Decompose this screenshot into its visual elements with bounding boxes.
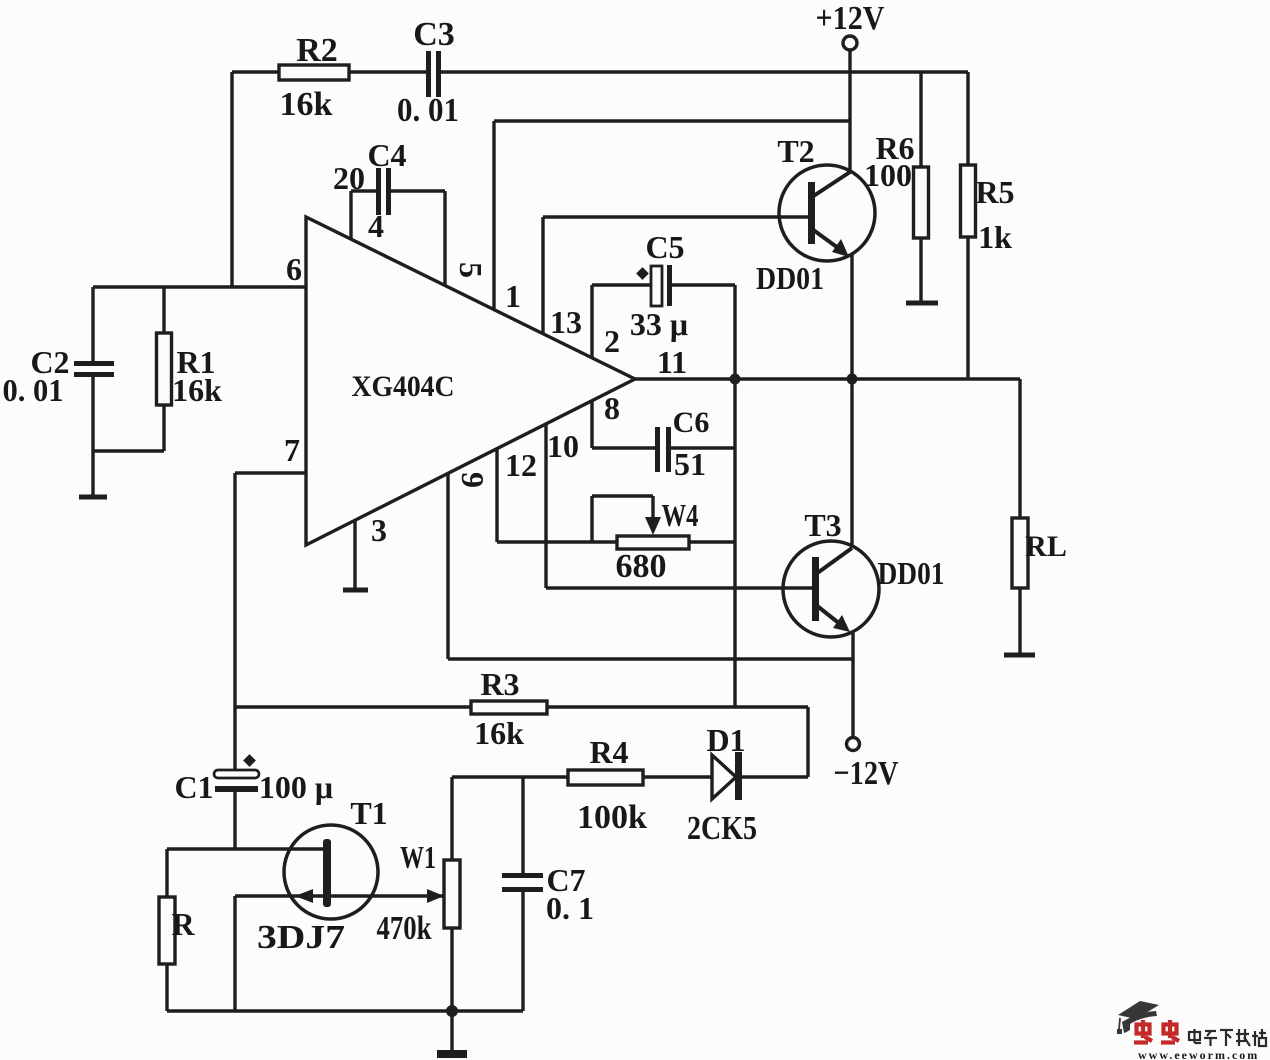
svg-text:5: 5 [453,262,489,278]
wire pin 10 to T3 base horizontal [546,586,813,589]
wire R1 bottom vertical [162,405,165,451]
wire T1 drain horizontal [167,847,326,850]
logo chong character 1 [1141,1020,1145,1038]
wire C4 left horizontal [351,189,377,192]
ground below C2 [79,495,107,500]
capacitor C6 right plate [666,427,671,472]
wire W4 right horizontal [689,540,735,543]
ground below RL [1004,653,1035,658]
wire R1 bottom to C2 branch horizontal [93,449,164,452]
svg-text:16k: 16k [474,715,524,751]
svg-text:C5: C5 [645,229,684,265]
capacitor C2 top plate [74,361,114,366]
wire pin 7 horizontal [235,471,306,474]
resistor R5 [961,165,976,237]
wire pin 13 vertical [541,217,544,334]
svg-text:33 μ: 33 μ [630,306,688,342]
svg-text:0. 01: 0. 01 [3,372,64,408]
wire pin 2 vertical [590,285,593,358]
svg-text:www.eeworm.com: www.eeworm.com [1138,1048,1259,1060]
wire feedback corner vertical at x808 [806,707,809,777]
svg-text:4: 4 [368,208,384,244]
wire pin 6 input horizontal [93,285,306,288]
junction node at T2 emitter and output [847,374,858,385]
wire pin 1 horizontal to +12V line [494,119,850,122]
svg-text:+12V: +12V [816,0,885,37]
svg-text:C4: C4 [367,137,406,173]
capacitor C7 bottom plate [502,887,543,892]
svg-text:7: 7 [284,432,300,468]
wire pin 1 vertical [492,121,495,310]
capacitor C5 left plate (electrolytic hollow) [651,266,662,306]
svg-text:T1: T1 [350,795,387,831]
svg-text:11: 11 [657,344,687,380]
transistor T2 base bar [808,182,815,244]
wire pin 10 vertical [544,424,547,588]
svg-text:3DJ7: 3DJ7 [257,919,345,956]
logo text zhan [1254,1031,1256,1046]
wire top rail middle segment R2 to C3 [349,70,427,73]
wire pin 3 vertical [353,521,356,590]
svg-text:T2: T2 [777,133,814,169]
wire pin 5 vertical [443,191,446,286]
diode D1 triangle [712,755,736,799]
transistor T3 collector stroke [816,548,852,574]
wire R3 left segment [235,705,471,708]
svg-text:W1: W1 [400,839,436,875]
transistor T1 channel bar [323,839,331,907]
capacitor C2 bottom plate [74,372,114,377]
wire top rail right segment C3 to R5 [441,70,968,73]
svg-text:DD01: DD01 [756,260,824,296]
svg-text:8: 8 [604,390,620,426]
wire pin 13 to T2 base horizontal [543,215,809,218]
wire C1 bottom to T1 drain [233,792,236,849]
svg-text:0. 01: 0. 01 [397,92,459,129]
wire C5 left horizontal [592,283,652,286]
logo tassel cord [1119,1018,1120,1030]
capacitor C4 left plate [376,168,381,215]
svg-text:470k: 470k [377,910,432,947]
logo graduation cap board [1118,1001,1159,1019]
resistor R4 [568,770,643,785]
wire pin 9 horizontal to -12V node [448,657,853,660]
wire pin 8 vertical [590,400,593,448]
svg-text:W4: W4 [662,497,699,533]
wire RL top vertical [1018,379,1021,518]
wire T1 gate-source horizontal [235,894,444,897]
wire left vertical from top rail to pin6 [230,72,233,287]
svg-text:R4: R4 [589,734,628,770]
svg-text:R3: R3 [480,666,519,702]
wire R3 right segment [547,705,808,708]
svg-text:100 μ: 100 μ [259,769,333,805]
svg-text:R: R [171,906,195,942]
capacitor C3 right plate [436,51,441,97]
diode D1 cathode bar [735,752,742,800]
svg-text:16k: 16k [280,86,333,123]
resistor R2 [279,65,349,80]
wire R6 top vertical [919,72,922,167]
svg-text:C6: C6 [673,406,710,439]
logo chong character 2 [1168,1020,1172,1038]
capacitor C7 top plate [502,873,543,878]
transistor T2 emitter stroke [812,229,845,253]
wire right bus vertical C5 to R3 [733,285,736,707]
wire C2 top vertical [91,287,94,362]
wire pin 7 vertical down to C1 [233,473,236,770]
svg-text:100: 100 [864,157,912,193]
svg-text:R5: R5 [975,174,1014,210]
wire W1 bottom vertical [450,928,453,1011]
capacitor C6 left plate [655,427,660,472]
wire RL bottom vertical to ground [1018,588,1021,655]
wire +12V terminal vertical [848,50,851,172]
ground below R6 [906,301,938,306]
wire R4 to D1 anode horizontal [643,775,713,778]
svg-text:13: 13 [550,304,582,340]
svg-text:XG404C: XG404C [352,370,455,403]
svg-text:1: 1 [505,278,521,314]
potentiometer W4 wiper arrowhead [645,517,661,535]
wire top rail left segment [232,70,280,73]
svg-text:D1: D1 [706,722,745,758]
svg-text:12: 12 [505,447,537,483]
op-amp U1 XG404C triangle [306,217,635,545]
wire R1 top vertical [162,287,165,333]
wire bottom rail [167,1009,523,1012]
svg-text:16k: 16k [172,372,222,408]
svg-text:C3: C3 [413,16,455,53]
wire pin 12 vertical [495,449,498,542]
wire ground stub below W1 [450,1011,453,1053]
polarity mark of C1 [243,754,256,767]
svg-text:−12V: −12V [834,755,899,792]
transistor T2 emitter arrowhead [832,239,849,257]
svg-text:2CK5: 2CK5 [687,810,757,847]
wire C2 bottom vertical to ground [91,377,94,497]
logo text zai [1236,1033,1249,1035]
junction node at C5 bus and output [730,374,741,385]
wire C6 left horizontal [592,446,656,449]
transistor T3 emitter arrowhead [833,615,850,632]
svg-text:DD01: DD01 [878,555,945,591]
transistor T2 collector stroke [812,172,850,197]
wire pin 12 to W4 horizontal [497,540,617,543]
capacitor C5 right plate [667,265,672,306]
transistor T1 FET circle [284,825,378,919]
potentiometer W1 body [444,860,460,928]
potentiometer W1 wiper arrowhead [427,889,444,903]
wire W1 top vertical [450,777,453,860]
wire R top vertical [165,849,168,897]
ground below W1 [437,1050,467,1058]
svg-text:680: 680 [616,548,667,585]
resistor R6 [914,167,929,238]
transistor Q T2 circle [779,165,875,261]
svg-text:9: 9 [455,472,491,488]
wire W4 wiper arrow stem [651,496,654,524]
resistor R3 [471,701,547,714]
svg-text:0. 1: 0. 1 [546,890,594,926]
transistor T3 emitter stroke [816,605,845,628]
svg-text:51: 51 [674,446,706,482]
transistor T3 base bar [812,557,819,621]
capacitor C4 right plate [386,168,391,215]
resistor R1 [157,333,172,405]
wire C4 right horizontal [391,189,445,192]
wire C7 bottom vertical [521,892,524,1011]
svg-text:3: 3 [371,512,387,548]
svg-text:1k: 1k [978,219,1012,255]
svg-text:T3: T3 [804,507,841,543]
svg-text:C1: C1 [174,769,213,805]
wire W4 wiper loop horizontal [592,494,653,497]
svg-text:R2: R2 [296,32,338,69]
transistor Q T3 circle [783,541,879,637]
svg-text:6: 6 [286,251,302,287]
resistor RL [1012,518,1028,588]
svg-text:100k: 100k [577,799,647,836]
logo tassel knot [1117,1029,1122,1034]
ground below pin 3 [343,588,368,593]
capacitor C1 bottom plate [215,786,258,792]
wire pin 4 vertical [349,191,352,241]
polarity mark of C5 [636,267,649,280]
wire C6 right horizontal [670,446,735,449]
wire R6 bottom vertical to ground [919,238,922,303]
terminal +12V circle [843,36,857,50]
wire C5 right horizontal [672,283,735,286]
wire R5 top vertical [966,72,969,165]
transistor T1 gate arrowhead [295,889,313,903]
resistor R [159,897,175,964]
wire C7 top vertical [521,777,524,874]
svg-text:RL: RL [1025,530,1067,563]
wire R bottom vertical [165,964,168,1011]
potentiometer W4 body [617,536,689,549]
logo text zi [1205,1030,1216,1032]
terminal -12V circle [847,738,860,751]
capacitor C1 top plate (electrolytic hollow) [214,770,259,778]
capacitor C3 left plate [426,51,431,97]
wire W1 top to R4 horizontal [452,775,568,778]
logo graduation cap lower brim [1122,1011,1157,1033]
wire D1 cathode to corner horizontal [742,775,808,778]
svg-text:10: 10 [547,428,579,464]
svg-text:20: 20 [333,160,365,196]
wire W4 wiper loop vertical [590,496,593,542]
wire T3 emitter vertical to -12V terminal [851,633,854,738]
wire T1 gate vertical to bottom rail [233,896,236,1011]
svg-text:2: 2 [604,323,620,359]
logo text dian [1189,1032,1200,1040]
wire R5 bottom vertical to output line [966,237,969,379]
wire pin 11 output horizontal [635,377,1020,380]
junction node at W1 bottom on ground rail [446,1005,458,1017]
logo text xia [1220,1029,1233,1031]
wire pin 9 vertical [446,474,449,659]
wire T2 emitter vertical / T3 collector vertical [850,255,853,547]
